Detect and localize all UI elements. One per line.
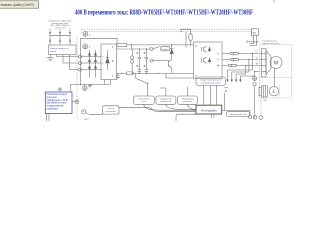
- svg-text:Управление замкнутой: Управление замкнутой: [200, 79, 221, 82]
- svg-text:Фильтр защиты от: Фильтр защиты от: [50, 47, 69, 50]
- wire phase U: [222, 53, 259, 55]
- relay label K2: [225, 88, 229, 94]
- wire signal box to interface: [119, 107, 196, 111]
- terminal L1: [79, 55, 82, 58]
- servomotor dashed box: [260, 45, 292, 99]
- motor PE wire: [240, 72, 259, 80]
- P rail junction dots: [171, 44, 191, 45]
- dashed enclosure left corner: [81, 30, 83, 34]
- ground (drive): [88, 84, 92, 88]
- ground (filter): [47, 55, 54, 61]
- svg-text:ечатать файл (Ctrl+P): ечатать файл (Ctrl+P): [1, 3, 34, 7]
- electrolytic capacitor C2: [136, 65, 141, 73]
- sense arrowheads: [226, 80, 237, 83]
- fan wire a: [250, 36, 254, 44]
- current sense drop W: [236, 66, 245, 80]
- relay contact K2: [136, 73, 149, 84]
- brake return wire: [166, 73, 194, 78]
- regen transistor Q7: [153, 58, 172, 73]
- 24V feed wires: [46, 114, 49, 122]
- crimp lug U: [231, 52, 239, 55]
- current sense drop V: [232, 60, 249, 80]
- junction dots on phase wires: [245, 53, 253, 66]
- fan unit: [251, 29, 258, 36]
- svg-text:помех: помех: [50, 51, 57, 53]
- wire MC to signal box: [86, 113, 103, 115]
- bottom enclosure corner: [176, 114, 196, 121]
- wire K2 to interface rail: [224, 93, 226, 110]
- control box current: [227, 111, 250, 116]
- encoder cable dashed: [260, 98, 262, 116]
- wire L3 to bridge: [82, 69, 102, 71]
- crimp lug V: [231, 58, 239, 61]
- encoder shaft blocks: [259, 86, 279, 97]
- fuse F1: [117, 43, 127, 46]
- rectifier bridge leg 1: [88, 50, 90, 78]
- encoder cable circle a: [248, 115, 251, 118]
- electrolytic capacitor C4: [143, 65, 148, 73]
- PE wire down: [254, 86, 256, 116]
- DC bottom rail: [117, 72, 194, 74]
- motor/encoder divider dashed: [260, 76, 292, 78]
- encoder sub-box dashed: [279, 85, 281, 98]
- wire gate box up: [187, 87, 189, 97]
- motor shaft to encoder: [274, 68, 276, 86]
- svg-text:Сигнал: Сигнал: [107, 108, 115, 110]
- svg-text:Определение тока: Определение тока: [229, 114, 247, 116]
- svg-text:Управление: Управление: [182, 98, 194, 100]
- svg-text:отдельно): отдельно): [47, 108, 58, 111]
- wires brake box to interface: [204, 86, 217, 106]
- terminal B2: [150, 59, 153, 62]
- terminal L2: [79, 62, 82, 65]
- dashed enclosure left edge: [76, 36, 78, 119]
- breaker pole 1: [49, 29, 51, 45]
- inrush resistor oval: [126, 72, 133, 75]
- svg-text:Зарядка: Зарядка: [161, 49, 169, 51]
- svg-text:МС2: МС2: [84, 119, 88, 121]
- wire 24V minus: [72, 101, 75, 103]
- wire phase V: [222, 59, 259, 61]
- circled ground (motor frame): [252, 76, 256, 81]
- callout 2 (circled ground): [83, 44, 88, 49]
- motor body funnel: [266, 51, 271, 75]
- wire fuse to P rail: [127, 44, 194, 46]
- charge relay contact: [153, 47, 160, 49]
- undervoltage signal box: [103, 106, 120, 114]
- servo drive dashed enclosure top: [82, 29, 253, 31]
- wire phase W: [222, 65, 259, 67]
- control box relay: [133, 96, 154, 104]
- svg-text:M: M: [274, 60, 278, 66]
- control box voltage: [156, 96, 176, 104]
- callout 1 (circled ground): [83, 31, 88, 36]
- circled ground (drive): [83, 84, 88, 90]
- encoder cable circle b: [253, 116, 256, 119]
- control box dynamic brake: [196, 77, 226, 86]
- motor terminal block: [260, 49, 266, 78]
- module pins R S T: [102, 56, 104, 71]
- svg-text:R: R: [253, 30, 256, 35]
- wire 24V to chassis rail: [70, 84, 72, 92]
- three-phase source label: [48, 20, 72, 30]
- terminal L3: [79, 68, 82, 71]
- wire P bus upper: [81, 38, 117, 84]
- IGBT pair upper: [202, 46, 211, 53]
- charge label: [160, 46, 169, 51]
- power board dashed enclosure top: [85, 31, 253, 33]
- control box gate: [178, 96, 198, 104]
- curve voltage box to interface: [166, 104, 196, 110]
- wire relay box up: [147, 84, 149, 96]
- power module box: [101, 44, 117, 80]
- IGBT pair lower: [202, 57, 211, 64]
- curve relay box to interface: [144, 104, 196, 110]
- svg-text:400 В переменного тока: R88D-W: 400 В переменного тока: R88D-WT05HF/-WT1…: [75, 8, 253, 17]
- svg-text:напряжения: напряжения: [160, 101, 171, 103]
- current sense drop U: [228, 54, 253, 80]
- wire filter to L3: [70, 55, 79, 70]
- wire L1 to bridge: [82, 56, 102, 58]
- svg-text:Определение: Определение: [160, 98, 174, 100]
- interface box: [196, 105, 222, 114]
- relay coil K1: [131, 49, 134, 73]
- terminal minus: [75, 100, 79, 104]
- terminal MC: [82, 110, 86, 114]
- wire L2 to bridge: [82, 62, 102, 64]
- svg-text:Предохранитель: Предохранитель: [117, 48, 132, 50]
- wire module to minus rail b: [110, 80, 112, 85]
- 24V supply box: [45, 92, 72, 114]
- encoder cable circle c: [259, 116, 263, 120]
- svg-text:U: U: [217, 52, 219, 55]
- wire voltage box up: [160, 88, 166, 96]
- junction dots DC rails: [121, 44, 158, 74]
- dashed enclosure right corner: [251, 30, 253, 40]
- wire module to minus rail a: [104, 80, 106, 85]
- svg-text:Управление: Управление: [138, 98, 150, 100]
- PE terminal circle: [253, 82, 256, 85]
- wires interface to bottom: [212, 114, 215, 118]
- wire filter to L1: [57, 55, 79, 57]
- svg-text:и разомкнутой цепью: и разомкнутой цепью: [201, 82, 221, 85]
- electrolytic capacitor C1: [136, 49, 141, 70]
- phase labels U V W at motor side: [256, 52, 259, 66]
- breaker pole 3: [69, 29, 71, 45]
- noise filter box: [49, 45, 77, 55]
- svg-text:Интерфейс: Интерфейс: [201, 109, 217, 113]
- curve gate box to interface: [188, 104, 197, 109]
- snubber capacitor: [116, 73, 120, 79]
- motor M: [270, 57, 282, 69]
- page mark: [273, 0, 275, 3]
- internal supply box: [181, 29, 191, 34]
- terminal B1: [150, 48, 153, 51]
- DC top rail: [132, 45, 150, 49]
- 24V supply ground: [58, 88, 63, 92]
- charge diode D7: [170, 45, 173, 58]
- fan wire b: [250, 36, 257, 46]
- servomotor label: [262, 40, 280, 45]
- junction dot chassis: [91, 84, 92, 85]
- bridge junction dots: [89, 56, 96, 70]
- breaker linkage bar: [50, 35, 70, 37]
- electrolytic capacitor C3: [143, 49, 148, 70]
- wire PE to bottom connector: [254, 116, 256, 118]
- browser print tooltip: [0, 1, 39, 8]
- wire supply to P rail a: [185, 32, 187, 48]
- chassis rail: [71, 83, 111, 85]
- svg-text:включения: включения: [106, 111, 116, 113]
- wire interface to current box: [222, 110, 250, 115]
- crimp lug W: [229, 64, 237, 67]
- IGBT module box: [194, 42, 223, 79]
- rectifier bridge leg 2: [94, 50, 96, 78]
- wire filter to L2: [63, 55, 79, 64]
- breaker pole 2: [59, 29, 61, 45]
- thermistor diode inside module: [106, 50, 110, 70]
- svg-text:затвором: затвором: [183, 101, 192, 103]
